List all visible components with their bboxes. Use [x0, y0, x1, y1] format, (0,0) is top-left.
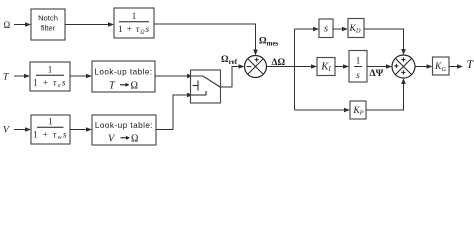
wire lag to V lookup table: [70, 127, 92, 132]
wire Notch filter to lag block: [65, 22, 114, 27]
svg-text:s: s: [324, 22, 328, 34]
svg-text:1 + τes: 1 + τes: [33, 77, 67, 89]
svg-text:1 + τΩs: 1 + τΩs: [118, 24, 150, 36]
switch contact lower stub: [191, 91, 206, 96]
sign plus top: [255, 58, 259, 62]
wire Omega_mes measured speed to summing junction: [154, 24, 258, 56]
wire T lookup output to switch upper input: [155, 74, 193, 79]
svg-text:1 + τws: 1 + τws: [33, 130, 68, 142]
svg-text:1: 1: [48, 117, 53, 127]
svg-text:Notch: Notch: [38, 14, 58, 23]
svg-text:Ω: Ω: [131, 134, 138, 145]
switch block selector: [191, 70, 221, 103]
wire V lookup output to switch lower input: [156, 93, 193, 130]
block Look-up table V to Omega: [92, 115, 156, 145]
block gain KD: [348, 19, 364, 38]
wire Delta Omega error to PID branches: [267, 64, 318, 69]
wire branch trunk vertical: [294, 29, 296, 110]
svg-text:1: 1: [356, 56, 361, 66]
block low-pass 1/(1+tau_Omega s): [114, 8, 154, 38]
wire summing junction to KG gain: [415, 64, 433, 69]
block gain KI: [317, 58, 335, 76]
svg-text:Look-up table:: Look-up table:: [95, 121, 153, 130]
wire s block to KD gain: [333, 27, 348, 32]
wire Delta Psi integrator output to summing junction: [367, 64, 392, 69]
svg-text:ΔΨ: ΔΨ: [370, 68, 384, 79]
svg-text:s: s: [356, 71, 360, 81]
wire V input arrow: [14, 127, 31, 132]
wire KD output to summing junction top: [364, 29, 406, 55]
block Look-up table T to Omega: [92, 61, 155, 92]
sign minus left: [247, 66, 251, 68]
svg-text:Ω: Ω: [4, 20, 11, 30]
sign plus top: [401, 58, 405, 62]
wire trunk to KP gain: [295, 108, 351, 113]
wire KP output to summing junction bottom: [366, 78, 406, 110]
wire KG output torque T: [449, 64, 463, 69]
summing junction S2 (PID sum): [392, 55, 415, 78]
svg-text:1: 1: [132, 11, 137, 21]
block integrator 1/s: [349, 51, 367, 83]
sign plus bottom: [401, 70, 405, 74]
svg-text:T: T: [467, 57, 474, 71]
sign plus left: [394, 64, 398, 68]
switch contact mark middle: [193, 81, 199, 91]
block derivative s: [319, 19, 333, 38]
svg-text:Look-up table:: Look-up table:: [94, 68, 152, 77]
svg-text:1: 1: [48, 65, 53, 75]
svg-text:ΔΩ: ΔΩ: [272, 58, 286, 68]
summing junction S1 (Omega_ref minus Omega_mes): [245, 56, 267, 78]
block gain KP: [350, 101, 366, 119]
svg-text:filter: filter: [41, 24, 56, 33]
wire lag to T lookup table: [70, 74, 92, 79]
svg-text:T: T: [3, 73, 9, 83]
wire Omega input arrow: [14, 22, 31, 27]
wire T input arrow: [14, 74, 30, 79]
wire KI to integrator: [335, 64, 349, 69]
block low-pass 1/(1+tau_e s): [30, 62, 70, 91]
block low-pass 1/(1+tau_w s): [31, 115, 70, 144]
block gain KG: [433, 57, 450, 75]
svg-text:Ω: Ω: [131, 81, 138, 92]
wire Omega_ref switch output to summing junction: [221, 64, 245, 87]
wire trunk to derivative s block: [295, 27, 320, 32]
switch wiper from upper input: [191, 76, 220, 87]
block Notch filter: [31, 9, 65, 40]
